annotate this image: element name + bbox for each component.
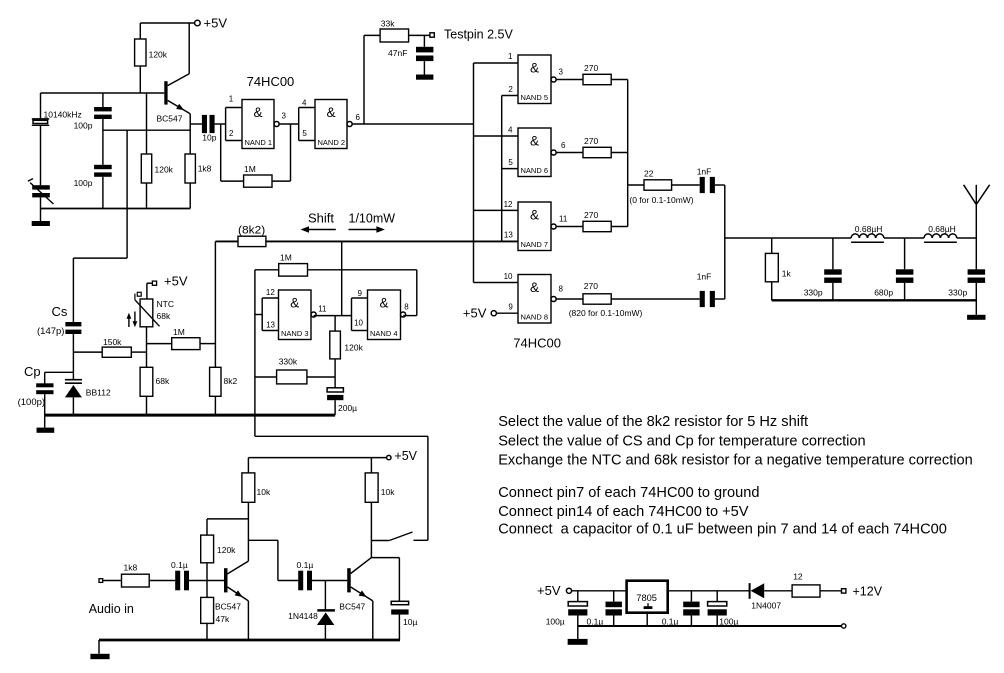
svg-text:NAND 5: NAND 5 [521,93,549,102]
svg-text:+5V: +5V [394,449,417,463]
svg-text:1/10mW: 1/10mW [349,211,396,225]
svg-text:120k: 120k [155,165,174,175]
svg-text:3: 3 [559,68,564,77]
svg-text:33k: 33k [381,18,395,28]
svg-text:1N4007: 1N4007 [751,601,781,611]
svg-text:1: 1 [229,95,234,104]
svg-text:BC547: BC547 [215,602,241,612]
svg-text:(100p): (100p) [18,397,45,408]
svg-text:1M: 1M [280,253,292,263]
svg-text:+5V: +5V [463,306,487,321]
svg-text:+5V: +5V [204,16,228,31]
svg-text:120k: 120k [149,50,168,60]
svg-text:(147p): (147p) [37,326,64,337]
svg-text:9: 9 [358,289,363,298]
svg-text:100µ: 100µ [546,617,565,627]
svg-text:10: 10 [354,319,363,328]
svg-text:100p: 100p [74,178,93,188]
svg-text:BC547: BC547 [339,602,365,612]
svg-text:6: 6 [561,141,566,150]
svg-text:120k: 120k [217,545,236,555]
svg-text:150k: 150k [103,337,122,347]
svg-text:13: 13 [504,231,513,240]
svg-text:330k: 330k [279,357,298,367]
svg-text:200µ: 200µ [338,403,357,413]
svg-text:Select the value of CS and Cp: Select the value of CS and Cp for temper… [498,434,865,450]
svg-text:10140kHz: 10140kHz [44,109,82,119]
svg-text:120k: 120k [344,343,363,353]
svg-text:BB112: BB112 [86,388,111,398]
svg-text:&: & [326,105,335,120]
svg-text:1M: 1M [244,164,256,174]
svg-text:13: 13 [266,321,275,330]
svg-text:8k2: 8k2 [224,376,238,386]
svg-text:Testpin 2.5V: Testpin 2.5V [444,28,513,42]
svg-text:6: 6 [356,113,361,122]
svg-text:5: 5 [302,129,307,138]
svg-text:68k: 68k [156,376,170,386]
svg-text:270: 270 [584,210,598,220]
svg-text:12: 12 [266,288,275,297]
svg-text:+12V: +12V [853,585,883,599]
svg-text:9: 9 [508,303,513,312]
svg-text:(8k2): (8k2) [238,225,265,237]
svg-text:NAND 4: NAND 4 [370,329,398,338]
svg-text:+5V: +5V [164,274,188,289]
svg-text:NAND 2: NAND 2 [318,138,346,147]
svg-text:1nF: 1nF [697,167,712,177]
svg-text:11: 11 [318,305,327,314]
svg-text:1: 1 [508,52,513,61]
svg-text:47k: 47k [216,614,230,624]
svg-text:22: 22 [644,169,654,179]
svg-text:5: 5 [508,158,513,167]
svg-text:Cp: Cp [24,364,41,379]
svg-text:NAND 3: NAND 3 [281,329,309,338]
svg-text:BC547: BC547 [157,114,183,124]
svg-text:Connect pin14 of each 74HC00 t: Connect pin14 of each 74HC00 to +5V [498,504,749,520]
svg-text:330p: 330p [804,288,823,298]
svg-text:(0 for 0.1-10mW): (0 for 0.1-10mW) [629,195,693,205]
svg-text:&: & [290,295,299,310]
svg-text:4: 4 [508,126,513,135]
svg-text:8: 8 [404,302,409,311]
svg-text:12: 12 [793,572,803,582]
svg-text:270: 270 [584,281,598,291]
svg-text:1M: 1M [173,327,185,337]
svg-text:330p: 330p [948,288,967,298]
svg-text:8: 8 [559,285,564,294]
svg-text:0.68µH: 0.68µH [928,224,956,234]
svg-text:Connect pin7 of each 74HC00 to: Connect pin7 of each 74HC00 to ground [498,485,759,501]
svg-text:Connect a capacitor of 0.1 uF: Connect a capacitor of 0.1 uF between pi… [498,522,947,538]
svg-text:+5V: +5V [537,583,561,598]
svg-text:&: & [253,105,262,120]
svg-text:NAND 6: NAND 6 [521,166,549,175]
svg-text:0.1µ: 0.1µ [297,560,314,570]
svg-text:7805: 7805 [636,593,657,603]
svg-text:NAND 1: NAND 1 [245,138,273,147]
svg-text:NAND 7: NAND 7 [521,240,549,249]
svg-text:&: & [379,295,388,310]
svg-text:270: 270 [584,63,598,73]
svg-text:10: 10 [504,272,513,281]
svg-text:1nF: 1nF [697,272,712,282]
svg-text:Shift: Shift [308,210,334,225]
svg-text:10p: 10p [202,133,216,143]
svg-text:10k: 10k [257,487,271,497]
svg-text:4: 4 [302,99,307,108]
svg-text:680p: 680p [874,288,893,298]
svg-text:100p: 100p [74,121,93,131]
svg-text:0.68µH: 0.68µH [855,224,883,234]
svg-text:NTC: NTC [157,299,174,309]
svg-text:&: & [530,133,539,148]
svg-text:1k8: 1k8 [124,563,138,573]
svg-text:Select the value of the 8k2 re: Select the value of the 8k2 resistor for… [498,414,808,430]
svg-text:2: 2 [508,85,513,94]
svg-text:74HC00: 74HC00 [247,74,295,89]
svg-text:2: 2 [229,129,234,138]
svg-text:(820 for 0.1-10mW): (820 for 0.1-10mW) [569,308,643,318]
svg-text:NAND 8: NAND 8 [521,313,549,322]
svg-text:&: & [530,60,539,75]
svg-text:0.1µ: 0.1µ [171,560,188,570]
svg-text:10k: 10k [381,487,395,497]
svg-text:Cs: Cs [52,304,68,319]
svg-text:12: 12 [504,200,513,209]
svg-text:11: 11 [559,215,568,224]
svg-text:1k8: 1k8 [198,164,212,174]
svg-text:Exchange the NTC and 68k resis: Exchange the NTC and 68k resistor for a … [498,453,973,469]
svg-text:1N4148: 1N4148 [288,611,318,621]
svg-text:3: 3 [282,111,287,120]
svg-text:47nF: 47nF [388,48,407,58]
svg-text:74HC00: 74HC00 [513,336,561,351]
svg-text:68k: 68k [157,311,171,321]
svg-text:&: & [530,280,539,295]
svg-text:10µ: 10µ [403,617,417,627]
svg-text:&: & [530,207,539,222]
svg-text:Audio in: Audio in [89,602,134,616]
svg-text:270: 270 [584,136,598,146]
svg-text:1k: 1k [782,269,792,279]
